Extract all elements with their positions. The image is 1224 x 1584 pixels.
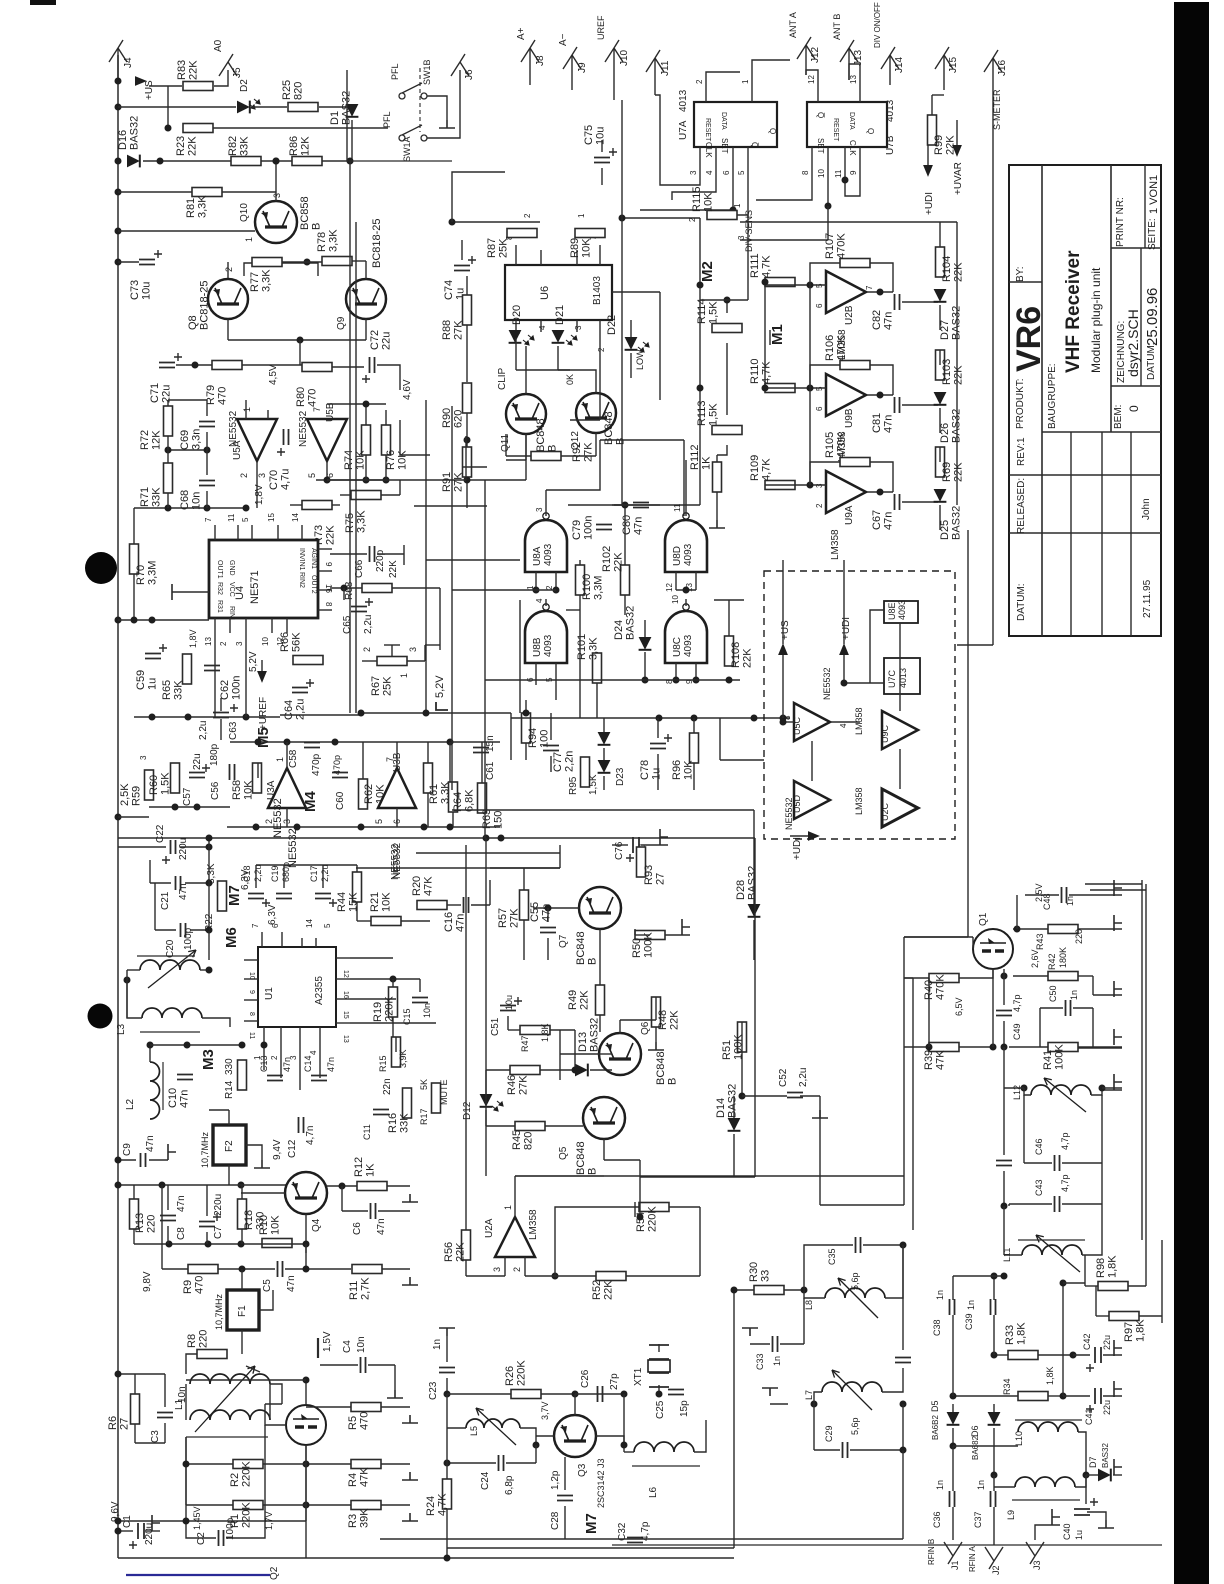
transistor Q9 <box>346 279 386 319</box>
svg-text:U9A: U9A <box>844 505 855 525</box>
capacitor C55 <box>540 928 556 933</box>
wire D5/D6 <box>952 1404 954 1412</box>
diode D2 LED <box>237 101 250 114</box>
wire R11 right <box>382 1268 410 1270</box>
svg-text:RFIN B: RFIN B <box>927 1539 936 1565</box>
resistor R70 <box>130 544 139 574</box>
svg-text:D24: D24 <box>613 620 625 640</box>
capacitor C16 <box>464 897 469 913</box>
wire R94 <box>525 700 527 713</box>
svg-text:10u: 10u <box>504 995 514 1010</box>
svg-text:C59: C59 <box>135 670 147 690</box>
wire d13 <box>574 1030 576 1070</box>
wire C4 <box>320 1364 358 1366</box>
svg-text:1u: 1u <box>147 678 159 690</box>
wire R97 <box>1096 1315 1109 1317</box>
svg-text:OUT1: OUT1 <box>216 560 223 579</box>
svg-text:5,2V: 5,2V <box>248 651 259 672</box>
wire big loop top <box>452 809 754 811</box>
svg-text:NE5532: NE5532 <box>784 797 794 830</box>
svg-text:12: 12 <box>342 970 349 978</box>
wire c cluster <box>118 846 166 848</box>
svg-text:27K: 27K <box>509 908 521 928</box>
wire C38/C39 tops <box>952 1276 954 1300</box>
connector J5 <box>219 54 237 76</box>
resistor R5 <box>351 1403 381 1412</box>
svg-text:C21: C21 <box>160 891 171 910</box>
svg-text:C56: C56 <box>210 781 221 800</box>
svg-text:R78: R78 <box>316 232 328 252</box>
svg-text:R59: R59 <box>131 786 143 806</box>
wire U8A-U8B link <box>545 599 547 606</box>
wire B1403 in <box>452 172 505 222</box>
node rail y231 <box>115 228 122 235</box>
wire D2 to R25 <box>252 106 287 108</box>
svg-text:10n: 10n <box>356 1336 367 1353</box>
capacitor C49 <box>996 1011 1012 1016</box>
svg-text:R41: R41 <box>1042 1050 1054 1070</box>
svg-text:C62: C62 <box>219 680 231 700</box>
svg-text:U6: U6 <box>539 286 551 300</box>
svg-text:U9C: U9C <box>880 724 890 743</box>
nand gate U8B <box>525 611 567 663</box>
svg-text:L12: L12 <box>1012 1085 1022 1100</box>
svg-text:B: B <box>311 223 323 230</box>
resistor R98 <box>1098 1282 1128 1291</box>
svg-text:11: 11 <box>248 1032 255 1039</box>
wire ff cross routes <box>655 95 700 185</box>
svg-text:C20: C20 <box>165 939 176 958</box>
svg-text:R5: R5 <box>347 1416 359 1430</box>
svg-text:C5: C5 <box>262 1279 273 1292</box>
svg-text:D22: D22 <box>606 315 618 335</box>
resistor R3 <box>351 1501 381 1510</box>
wire U8C inputs <box>675 663 677 680</box>
inductor L11 <box>1022 1245 1082 1255</box>
dashed function box <box>764 571 955 839</box>
svg-text:1: 1 <box>275 757 285 762</box>
svg-text:25.09.96: 25.09.96 <box>1144 288 1161 346</box>
wire fpin trunk <box>621 218 623 505</box>
wire J13 stem <box>848 48 850 80</box>
wire R25 to D1 <box>319 106 352 108</box>
svg-text:L10: L10 <box>1014 1431 1024 1446</box>
resistor R100 <box>576 565 585 595</box>
svg-text:BAS32: BAS32 <box>727 1084 739 1118</box>
svg-text:F2: F2 <box>224 1140 235 1152</box>
svg-text:10K: 10K <box>243 780 255 800</box>
title block row under main <box>1042 431 1161 433</box>
svg-text:C36: C36 <box>932 1511 942 1528</box>
capacitor C67 <box>895 494 900 510</box>
svg-text:R12: R12 <box>353 1157 365 1177</box>
resistor R11 <box>352 1265 382 1274</box>
wire trunk x426 <box>425 400 427 713</box>
svg-text:AGIN1: AGIN1 <box>310 548 317 569</box>
wire q3 collector top <box>574 1394 576 1415</box>
svg-text:13: 13 <box>849 75 858 84</box>
resistor R101 <box>593 653 602 683</box>
svg-text:C18: C18 <box>242 865 252 882</box>
svg-text:C72: C72 <box>369 330 381 350</box>
svg-text:B1403: B1403 <box>592 276 603 305</box>
svg-text:R70: R70 <box>135 565 147 585</box>
wire q1 source col <box>992 969 994 1047</box>
svg-text:CLK: CLK <box>704 142 713 158</box>
svg-text:RELEASED:: RELEASED: <box>1016 478 1027 534</box>
wire D24 <box>644 620 646 637</box>
title block outer frame <box>1009 165 1161 636</box>
wire R47 <box>508 1029 520 1031</box>
wire c36/37 <box>952 1446 954 1491</box>
resistor R75 <box>351 491 381 500</box>
capacitor C81 <box>895 397 900 413</box>
wire Q11 to D20 <box>525 346 527 394</box>
title block line seite <box>1144 165 1146 248</box>
svg-text:33K: 33K <box>151 487 163 507</box>
wire R82-R86 <box>261 160 292 162</box>
svg-text:J5: J5 <box>232 67 243 78</box>
svg-text:DATUM:: DATUM: <box>1146 342 1157 380</box>
wire R33 <box>994 1354 1008 1356</box>
svg-text:BAS32: BAS32 <box>1101 1443 1110 1468</box>
connector J2 <box>985 1547 1003 1569</box>
wire L11 <box>1003 1206 1005 1255</box>
svg-text:3: 3 <box>492 1267 502 1272</box>
wire c unnamed <box>1003 1088 1005 1155</box>
svg-text:L7: L7 <box>804 1390 814 1400</box>
svg-text:100n: 100n <box>583 516 595 540</box>
wire mid col <box>1062 1283 1064 1396</box>
svg-text:U8E: U8E <box>887 602 897 620</box>
connector J1 <box>944 1542 962 1564</box>
wire J10 down <box>621 100 623 218</box>
capacitor C26 <box>598 1386 603 1402</box>
resistor R34 <box>1018 1392 1048 1401</box>
diode D28 <box>748 904 761 917</box>
capacitor C11b <box>373 1110 389 1115</box>
svg-text:27K: 27K <box>518 1075 530 1095</box>
wire C78 stub <box>657 718 659 738</box>
wire C35 <box>804 1245 853 1290</box>
resistor R72 <box>164 406 173 436</box>
svg-text:M4: M4 <box>302 791 319 812</box>
svg-text:220K: 220K <box>516 1360 528 1386</box>
wire L2 top <box>149 1045 151 1062</box>
wire C29 <box>813 1404 815 1450</box>
capacitor C78 <box>650 744 666 749</box>
wire C41 <box>1063 1395 1090 1397</box>
wire D7 <box>1086 1474 1098 1476</box>
svg-text:22K: 22K <box>579 990 591 1010</box>
svg-text:C16: C16 <box>443 912 455 932</box>
wire D23 <box>603 718 605 732</box>
svg-text:L2: L2 <box>125 1098 136 1110</box>
svg-text:3,3K: 3,3K <box>588 637 600 660</box>
wire Q9 collector <box>365 261 367 279</box>
wire C28 <box>564 1457 566 1490</box>
wire trunk x520 low <box>485 838 487 1176</box>
wire m2 area <box>747 232 749 300</box>
IC U7A 4013 <box>694 102 777 147</box>
resistor R51 <box>738 1022 747 1052</box>
capacitor C24 <box>499 1455 504 1471</box>
svg-text:R56: R56 <box>443 1242 455 1262</box>
svg-text:C35: C35 <box>827 1248 837 1265</box>
svg-text:A−: A− <box>558 33 569 46</box>
resistor R90 <box>463 383 472 413</box>
resistor R6 <box>131 1394 140 1424</box>
svg-text:R19: R19 <box>372 1002 384 1022</box>
wire m5 bus bridge <box>280 714 361 716</box>
wire SW right to gnd <box>427 96 447 120</box>
svg-text:3,9K: 3,9K <box>398 1049 408 1068</box>
svg-text:CLK: CLK <box>848 140 857 156</box>
wire left branch x134 <box>133 508 135 620</box>
svg-text:47n: 47n <box>286 1275 297 1292</box>
capacitor C62 <box>204 666 220 671</box>
svg-text:Q6: Q6 <box>640 1021 651 1035</box>
svg-text:2,7K: 2,7K <box>360 1277 372 1300</box>
wire u3 links <box>257 763 259 778</box>
op-amp U2A <box>495 1217 535 1257</box>
svg-text:J10: J10 <box>619 49 630 66</box>
svg-text:C29: C29 <box>824 1425 834 1442</box>
svg-text:150: 150 <box>493 811 505 829</box>
svg-text:R15: R15 <box>378 1055 388 1072</box>
diode D12 LED <box>480 1094 493 1107</box>
svg-text:220K: 220K <box>241 1461 253 1487</box>
svg-text:47n: 47n <box>145 1135 156 1152</box>
svg-text:4,7u: 4,7u <box>280 469 292 490</box>
capacitor C32 <box>627 1538 643 1543</box>
svg-text:C38: C38 <box>932 1319 942 1336</box>
svg-text:UREF: UREF <box>596 15 606 40</box>
resistor R62 <box>359 779 368 809</box>
wire u6 right exits <box>612 291 660 293</box>
svg-text:J9: J9 <box>577 62 588 73</box>
resistor R40 <box>929 974 959 983</box>
svg-text:BC848: BC848 <box>575 1141 587 1175</box>
transistor Q3 <box>554 1415 596 1457</box>
svg-text:1n: 1n <box>432 1339 443 1350</box>
capacitor C14 <box>311 1076 327 1081</box>
wire ff bottom bus2 <box>747 162 749 218</box>
wire J15 stem <box>943 55 945 90</box>
IC U6 B1403 <box>505 265 612 320</box>
svg-text:Modular plug-in unit: Modular plug-in unit <box>1089 267 1103 373</box>
resistor R17 <box>432 1083 441 1113</box>
wire C33 <box>750 1343 770 1345</box>
svg-text:U8A: U8A <box>532 546 543 566</box>
svg-text:R47: R47 <box>520 1035 530 1052</box>
svg-text:C42: C42 <box>1082 1333 1092 1350</box>
svg-text:10u: 10u <box>141 282 153 300</box>
capacitor C74 <box>454 266 470 271</box>
svg-text:7: 7 <box>385 757 395 762</box>
svg-text:BA6B2: BA6B2 <box>931 1415 940 1440</box>
capacitor C39 <box>991 1299 996 1315</box>
wire top bus y742 <box>230 741 500 743</box>
diode D7 <box>1098 1469 1111 1482</box>
+US arrow up <box>778 643 788 655</box>
resistor R41 <box>1048 1043 1078 1052</box>
wire m1 out trunk <box>967 530 969 937</box>
wire div trunk <box>612 504 700 506</box>
svg-text:R105: R105 <box>824 432 836 458</box>
svg-text:1n: 1n <box>935 1480 945 1490</box>
svg-text:12K: 12K <box>300 136 312 156</box>
svg-text:470K: 470K <box>935 974 947 1000</box>
wire L9 <box>994 1486 1015 1488</box>
svg-text:C22: C22 <box>155 824 166 843</box>
svg-text:33: 33 <box>760 1270 772 1282</box>
wire U4 pins to bus <box>214 633 216 717</box>
wire s-meter trunk <box>992 95 994 645</box>
schematic left border wire +US rail <box>117 55 119 1558</box>
svg-text:4013: 4013 <box>678 89 689 112</box>
svg-text:56K: 56K <box>291 632 303 652</box>
svg-text:10n: 10n <box>177 1386 188 1403</box>
capacitor unnamed <box>996 1161 1012 1166</box>
svg-text:+UREF: +UREF <box>258 697 269 730</box>
svg-text:R92: R92 <box>571 442 583 462</box>
svg-text:CLIP: CLIP <box>497 367 508 390</box>
svg-text:22K: 22K <box>669 1010 681 1030</box>
svg-text:C6: C6 <box>352 1222 363 1235</box>
resistor R60 <box>171 763 180 793</box>
svg-text:VHF Receiver: VHF Receiver <box>1063 250 1084 373</box>
svg-text:A2355: A2355 <box>314 976 325 1005</box>
svg-text:B: B <box>587 958 599 965</box>
resistor R94 <box>522 713 531 743</box>
resistor R52 <box>596 1272 626 1281</box>
capacitor C40 <box>1074 1509 1090 1515</box>
svg-text:25K: 25K <box>498 238 510 258</box>
svg-text:4: 4 <box>839 723 848 728</box>
wire J11 stem <box>654 58 656 95</box>
svg-text:C46: C46 <box>1034 1138 1044 1155</box>
wire ff bottom bus1 <box>640 162 733 210</box>
svg-text:R72: R72 <box>139 430 151 450</box>
capacitor C72 <box>370 357 375 373</box>
wire bus y1045 <box>150 1044 242 1046</box>
svg-text:1,8K: 1,8K <box>1107 1255 1119 1278</box>
svg-text:C82: C82 <box>871 310 883 330</box>
wire R99 top <box>931 95 933 115</box>
svg-text:47n: 47n <box>883 312 895 330</box>
resistor R76 <box>382 425 391 455</box>
wire heads <box>255 865 257 888</box>
wire D22 <box>630 320 632 337</box>
svg-text:R39: R39 <box>923 1050 935 1070</box>
svg-text:11: 11 <box>834 169 843 178</box>
svg-text:L6: L6 <box>648 1486 659 1498</box>
node y620 rail <box>115 617 122 624</box>
svg-text:C81: C81 <box>871 413 883 433</box>
ground C9 <box>168 1144 176 1160</box>
svg-text:10: 10 <box>817 169 826 178</box>
svg-text:2: 2 <box>224 267 234 272</box>
resistor R8 <box>197 1350 227 1359</box>
svg-text:R103: R103 <box>941 359 953 385</box>
node mid y450 <box>168 449 207 451</box>
wire R40 <box>904 977 929 979</box>
svg-text:4: 4 <box>538 325 547 330</box>
svg-text:3,3n: 3,3n <box>191 429 203 450</box>
wire L12 <box>1021 1085 1028 1092</box>
U1 pin stubs top <box>261 932 263 947</box>
svg-text:47n: 47n <box>883 415 895 433</box>
wire U8C-U8D link <box>685 599 687 606</box>
resistor R1 <box>233 1501 263 1510</box>
svg-text:3,3M: 3,3M <box>593 576 605 600</box>
resistor R61 <box>424 763 433 793</box>
title block line col1 <box>1041 165 1043 636</box>
svg-text:DATUM:: DATUM: <box>1016 583 1027 621</box>
svg-text:22K: 22K <box>388 560 399 578</box>
svg-text:R95: R95 <box>568 776 579 795</box>
svg-text:RESET: RESET <box>704 118 711 142</box>
wire L6 <box>623 1394 625 1452</box>
wire R74 bottom <box>365 455 367 480</box>
title block line printnr bottom <box>1111 247 1161 249</box>
svg-text:J12: J12 <box>810 46 821 63</box>
svg-text:BAS32: BAS32 <box>129 116 141 150</box>
punch hole top <box>85 552 117 584</box>
wire R98 <box>1085 1285 1098 1287</box>
wire R77 right <box>282 263 318 276</box>
svg-text:10K: 10K <box>703 192 715 212</box>
svg-text:1,8K: 1,8K <box>1045 1366 1055 1385</box>
svg-text:5: 5 <box>737 170 746 175</box>
svg-text:Q: Q <box>768 128 777 134</box>
svg-text:M1: M1 <box>769 324 786 345</box>
svg-text:RFIN A: RFIN A <box>968 1546 977 1572</box>
svg-text:Q̅: Q̅ <box>750 142 759 148</box>
diode D23 b <box>598 760 611 773</box>
wire L1 ends <box>270 1384 282 1404</box>
svg-text:D7: D7 <box>1088 1456 1098 1468</box>
wire R104 tops <box>939 222 941 247</box>
nand gate U8C <box>665 611 707 663</box>
resistor R54 <box>639 1203 669 1212</box>
svg-text:820: 820 <box>523 1132 535 1150</box>
svg-text:C49: C49 <box>1012 1023 1022 1040</box>
wire q5 stage <box>603 1139 605 1160</box>
svg-text:C4: C4 <box>342 1340 353 1353</box>
svg-text:R98: R98 <box>1095 1258 1107 1278</box>
svg-text:NE5532: NE5532 <box>287 828 299 868</box>
svg-text:1: 1 <box>741 79 750 84</box>
wire xt1 <box>658 1344 660 1352</box>
svg-text:1,8K: 1,8K <box>1016 1322 1028 1345</box>
svg-text:C32: C32 <box>617 1522 628 1541</box>
inductor L7 <box>822 1382 882 1392</box>
svg-text:220u: 220u <box>144 1523 155 1545</box>
capacitor C71 <box>159 363 175 368</box>
svg-text:BC848: BC848 <box>575 931 587 965</box>
capacitor C5 <box>278 1261 283 1277</box>
connector J4 <box>109 40 127 62</box>
connector J10 <box>605 40 623 62</box>
svg-text:33K: 33K <box>399 1113 411 1133</box>
svg-text:47n: 47n <box>282 1057 292 1072</box>
svg-text:1n: 1n <box>935 1290 945 1300</box>
svg-text:R106: R106 <box>824 335 836 361</box>
svg-text:R31: R31 <box>216 600 223 613</box>
svg-text:13: 13 <box>342 1035 349 1043</box>
